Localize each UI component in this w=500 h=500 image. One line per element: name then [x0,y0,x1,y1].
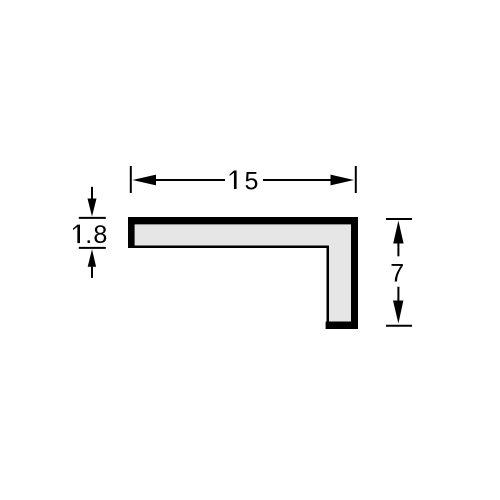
svg-text:8: 8 [93,221,107,249]
svg-text:.: . [85,221,92,249]
svg-text:5: 5 [245,167,259,195]
svg-text:7: 7 [390,260,404,288]
